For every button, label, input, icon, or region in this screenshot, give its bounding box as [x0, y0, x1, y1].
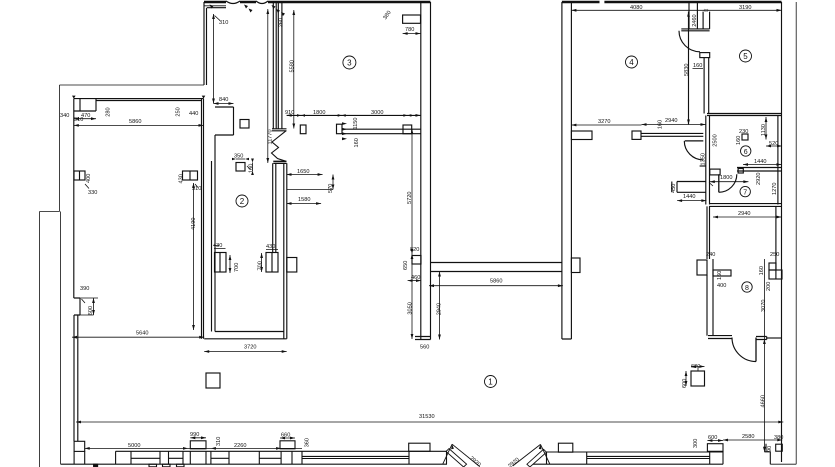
svg-text:230: 230	[739, 129, 748, 135]
svg-text:5: 5	[743, 52, 748, 61]
svg-text:600: 600	[682, 379, 688, 388]
svg-text:3050: 3050	[407, 302, 413, 314]
svg-text:160: 160	[354, 138, 360, 147]
svg-text:520: 520	[769, 141, 778, 147]
svg-text:310: 310	[219, 20, 228, 26]
svg-text:430: 430	[179, 174, 185, 183]
svg-text:3720: 3720	[244, 345, 256, 351]
svg-text:160: 160	[658, 120, 664, 129]
svg-text:5860: 5860	[490, 279, 502, 285]
svg-text:160: 160	[717, 271, 723, 280]
svg-text:3: 3	[347, 59, 352, 68]
svg-text:1130: 1130	[761, 124, 767, 136]
svg-text:400: 400	[717, 283, 726, 289]
svg-text:840: 840	[219, 97, 228, 103]
svg-text:250: 250	[176, 107, 182, 116]
svg-text:440: 440	[189, 111, 198, 117]
svg-text:910: 910	[285, 110, 294, 116]
svg-text:3070: 3070	[761, 300, 767, 312]
svg-text:820: 820	[410, 247, 419, 253]
svg-text:470: 470	[81, 113, 90, 119]
svg-text:1580: 1580	[298, 197, 310, 203]
svg-text:600: 600	[88, 306, 94, 315]
svg-text:5580: 5580	[290, 60, 296, 72]
svg-text:430: 430	[266, 244, 275, 250]
svg-text:310: 310	[192, 186, 201, 192]
svg-text:4660: 4660	[761, 395, 767, 407]
svg-text:160: 160	[249, 164, 255, 173]
svg-text:2940: 2940	[738, 211, 750, 217]
svg-text:700: 700	[234, 263, 240, 272]
svg-text:4080: 4080	[630, 5, 642, 11]
svg-text:2580: 2580	[742, 434, 754, 440]
svg-text:350: 350	[234, 154, 243, 160]
svg-text:31530: 31530	[419, 414, 435, 420]
svg-text:2500: 2500	[713, 134, 719, 146]
svg-text:200: 200	[766, 282, 772, 291]
svg-text:7: 7	[743, 189, 747, 196]
svg-text:450: 450	[671, 184, 677, 193]
svg-text:700: 700	[258, 261, 264, 270]
svg-text:90: 90	[767, 446, 773, 452]
svg-text:6: 6	[744, 149, 748, 156]
svg-text:600: 600	[708, 435, 717, 441]
svg-text:5830: 5830	[684, 64, 690, 76]
svg-text:1270: 1270	[772, 183, 778, 195]
svg-text:1650: 1650	[297, 169, 309, 175]
svg-text:3190: 3190	[739, 5, 751, 11]
svg-text:11770: 11770	[268, 129, 274, 144]
svg-text:4: 4	[629, 58, 634, 67]
svg-text:280: 280	[106, 107, 112, 116]
svg-text:5860: 5860	[129, 119, 141, 125]
svg-text:160: 160	[736, 136, 742, 145]
svg-text:4190: 4190	[191, 218, 197, 230]
svg-text:400: 400	[86, 174, 92, 183]
svg-text:340: 340	[60, 113, 69, 119]
svg-text:5720: 5720	[407, 192, 413, 204]
svg-text:560: 560	[420, 345, 429, 351]
svg-text:5000: 5000	[128, 443, 140, 449]
svg-text:1: 1	[488, 378, 493, 387]
svg-text:300: 300	[693, 439, 699, 448]
svg-text:1440: 1440	[683, 194, 695, 200]
svg-text:330: 330	[88, 190, 97, 196]
svg-text:250: 250	[770, 252, 779, 258]
svg-text:3000: 3000	[371, 110, 383, 116]
svg-text:2920: 2920	[756, 173, 762, 185]
svg-text:3270: 3270	[598, 119, 610, 125]
svg-text:660: 660	[281, 433, 290, 439]
svg-text:460: 460	[411, 275, 420, 281]
svg-text:380: 380	[774, 435, 783, 441]
svg-text:1800: 1800	[720, 175, 732, 181]
svg-text:310: 310	[216, 437, 222, 446]
svg-text:1440: 1440	[754, 159, 766, 165]
svg-text:8: 8	[745, 285, 749, 292]
svg-text:160: 160	[759, 266, 765, 275]
svg-text:5640: 5640	[136, 331, 148, 337]
svg-text:260: 260	[278, 18, 284, 27]
svg-text:650: 650	[403, 261, 409, 270]
svg-text:1350: 1350	[700, 153, 706, 165]
svg-text:1150: 1150	[353, 117, 359, 129]
svg-text:360: 360	[304, 438, 310, 447]
svg-text:160: 160	[693, 63, 702, 69]
svg-text:2940: 2940	[436, 303, 442, 315]
svg-text:780: 780	[405, 27, 414, 33]
svg-text:430: 430	[213, 243, 222, 249]
svg-text:390: 390	[80, 286, 89, 292]
svg-text:1800: 1800	[313, 110, 325, 116]
svg-text:570: 570	[328, 184, 334, 193]
svg-text:990: 990	[190, 432, 199, 438]
svg-text:2: 2	[240, 197, 245, 206]
svg-text:2460: 2460	[692, 14, 698, 26]
svg-text:240: 240	[706, 252, 715, 258]
svg-text:2940: 2940	[665, 118, 677, 124]
svg-text:620: 620	[691, 364, 700, 370]
svg-text:2260: 2260	[234, 443, 246, 449]
